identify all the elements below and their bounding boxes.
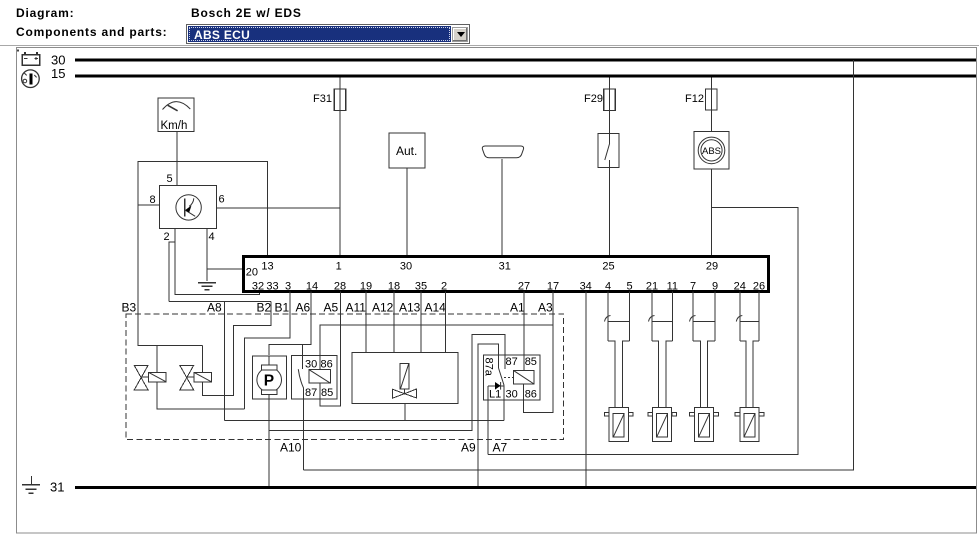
main relay box with diode (483, 355, 540, 400)
svg-text:34: 34 (580, 281, 592, 293)
svg-text:30: 30 (305, 358, 317, 370)
wire pair ECU pins 7 9 to sensor G45 (692, 292, 694, 342)
ground symbol at sensor (198, 283, 216, 290)
svg-text:30: 30 (400, 261, 412, 273)
svg-text:1: 1 (336, 261, 342, 273)
ignition switch symbol (22, 70, 40, 88)
wire sensor pin 4 to ground (206, 229, 208, 282)
wheel speed sensor G46 (648, 407, 677, 441)
svg-text:29: 29 (706, 261, 718, 273)
svg-text:17: 17 (547, 281, 559, 293)
svg-text:18: 18 (388, 281, 400, 293)
svg-text:3: 3 (285, 281, 291, 293)
wire valve coil 2 feed (202, 345, 204, 372)
svg-text:30: 30 (506, 388, 518, 400)
svg-text:5: 5 (626, 281, 632, 293)
wire net B3 to valve coils (138, 205, 202, 345)
wire sensor pin 2 with jog (175, 229, 259, 295)
pressure switch relay box (291, 356, 337, 399)
wire relay 30 to common rail (503, 400, 505, 421)
svg-text:24: 24 (734, 281, 746, 293)
wire pair ECU pins 24 26 to sensor G44 (739, 292, 741, 342)
svg-text:31: 31 (499, 261, 511, 273)
svg-text:8: 8 (150, 194, 156, 206)
svg-text:5: 5 (167, 173, 173, 185)
solenoid valve 2 (180, 366, 212, 390)
svg-text:14: 14 (306, 281, 318, 293)
top separator line (0, 45, 979, 47)
svg-text:ABS: ABS (702, 146, 721, 157)
svg-text:A6: A6 (296, 301, 311, 315)
svg-text:26: 26 (753, 281, 765, 293)
battery symbol (22, 52, 39, 65)
svg-text:86: 86 (321, 358, 333, 370)
svg-text:87: 87 (305, 387, 317, 399)
svg-text:21: 21 (646, 281, 658, 293)
EDS valve block N101 (352, 352, 458, 403)
brake light switch box (598, 134, 619, 168)
speed sensor box (160, 185, 217, 228)
header label Components and parts: (16, 25, 167, 39)
svg-text:13: 13 (261, 261, 273, 273)
wire pair ECU pins 21 11 to sensor G46 (651, 292, 653, 342)
svg-text:A5: A5 (324, 301, 339, 315)
wire ECU pin 34 to bus 31 (585, 292, 587, 486)
wire frame pin13 net upper horizontal (138, 162, 267, 257)
wire ABS lamp to ECU pin 29 (710, 169, 712, 256)
ECU bottom pin labels (252, 281, 765, 293)
wire A3 branch to pump relay coil (320, 325, 553, 370)
svg-text:A1: A1 (510, 301, 525, 315)
svg-text:F29: F29 (584, 93, 603, 105)
svg-text:15: 15 (51, 66, 65, 81)
svg-text:P: P (264, 373, 274, 390)
dropdown select ABS ECU (186, 24, 470, 44)
svg-text:Km/h: Km/h (161, 120, 188, 132)
svg-text:4: 4 (209, 231, 215, 243)
svg-text:A8: A8 (207, 301, 222, 315)
bus 31 (75, 486, 976, 489)
svg-text:6: 6 (219, 194, 225, 206)
wire pressure switch top stub (302, 344, 304, 369)
ABS warning lamp (694, 132, 729, 170)
wire EDS block to common rail (404, 403, 406, 420)
wire connector to ECU pin 31 (501, 159, 503, 257)
svg-text:A13: A13 (399, 301, 421, 315)
relay Aut. box (389, 133, 425, 168)
wire ECU pin 17 A3 to relay coils (524, 292, 553, 413)
fuse F29 (584, 78, 615, 134)
svg-text:A14: A14 (425, 301, 447, 315)
fuse F31 (313, 78, 346, 257)
header value Bosch 2E w/ EDS (191, 6, 302, 20)
speedometer Km/h gauge (158, 98, 194, 132)
fuse F12 (685, 78, 717, 132)
svg-text:87a: 87a (483, 358, 495, 377)
svg-text:F31: F31 (313, 93, 332, 105)
svg-text:B1: B1 (275, 301, 290, 315)
wire valve 1 coil return rail (157, 382, 245, 409)
ECU top pin labels (261, 261, 718, 273)
wheel speed sensor G47 (604, 407, 633, 441)
wire pump feed inside box (268, 356, 270, 365)
hydraulic pump motor V64 (252, 356, 286, 399)
svg-text:A9: A9 (461, 441, 476, 455)
wire ABS lamp branch to relay L1 (488, 208, 798, 455)
wire ECU pin 27 A1 to relay coil 85 (523, 292, 525, 371)
wire pump feed rail B to relay 87 (269, 334, 506, 430)
wire pair ECU pins 4 5 to sensor G47 (607, 292, 609, 342)
svg-text:19: 19 (360, 281, 372, 293)
wire common rail A (224, 419, 504, 421)
svg-text:2: 2 (441, 281, 447, 293)
svg-text:7: 7 (690, 281, 696, 293)
svg-text:32: 32 (252, 281, 264, 293)
wire pump to bus 31 (268, 395, 270, 486)
wire Km/h to speed sensor pin 5 (176, 132, 178, 186)
svg-text:A10: A10 (280, 441, 302, 455)
svg-text:35: 35 (415, 281, 427, 293)
svg-text:A12: A12 (372, 301, 394, 315)
wire sensor pin 6 to fuse F31 net (216, 207, 340, 209)
header label Diagram: (16, 6, 74, 20)
svg-text:4: 4 (605, 281, 611, 293)
svg-text:27: 27 (518, 281, 530, 293)
svg-text:85: 85 (321, 387, 333, 399)
svg-text:B2: B2 (257, 301, 272, 315)
diagnostic connector symbol (482, 146, 523, 158)
svg-text:2: 2 (164, 231, 170, 243)
svg-text:86: 86 (525, 388, 537, 400)
svg-text:B3: B3 (122, 301, 137, 315)
ground symbol bottom left (22, 476, 40, 493)
wire ECU pin 20 to ground net (207, 268, 244, 270)
wires ECU pins 19 18 35 2 to EDS valve (366, 292, 445, 353)
wheel speed sensor G45 (690, 407, 719, 441)
svg-text:L1: L1 (489, 388, 501, 400)
wire sensor pin 8 to B3 net (138, 204, 159, 206)
solenoid valve 1 (134, 366, 166, 390)
bus 30 (75, 58, 976, 61)
svg-text:25: 25 (602, 261, 614, 273)
wire switch to ECU pin 25 (609, 168, 611, 257)
wire pressure switch 87 to A10 (303, 399, 305, 470)
wheel speed sensor G44 (735, 407, 764, 441)
svg-text:A3: A3 (538, 301, 553, 315)
wire A8 drop to common rail (223, 302, 225, 421)
svg-text:F12: F12 (685, 93, 704, 105)
wire relay L1 to A7 (487, 386, 489, 455)
svg-text:33: 33 (266, 281, 278, 293)
hydraulic unit dashed box (126, 314, 564, 440)
wire Aut. to ECU pin 30 (406, 168, 408, 257)
svg-text:31: 31 (50, 480, 64, 495)
svg-text:A11: A11 (346, 301, 367, 315)
svg-text:9: 9 (712, 281, 718, 293)
svg-text:87: 87 (506, 356, 518, 368)
wire pump relay coil 85 to A5 pin 28 (320, 292, 341, 406)
svg-text:Aut.: Aut. (396, 144, 417, 158)
svg-text:85: 85 (525, 356, 537, 368)
wire ECU pin 14 A6 feed (269, 292, 311, 356)
svg-text:28: 28 (334, 281, 346, 293)
bus 15 (75, 75, 976, 78)
ECU box J104 (244, 257, 769, 292)
wire common net horizontal to A8 and B2 (169, 301, 271, 303)
wire relay switch to A9 bus 31 (478, 344, 499, 486)
wire bus30 drop to pressure switch (304, 60, 854, 470)
wire net B2 to valve 2 coil (203, 302, 272, 396)
dropdown arrow button (452, 27, 468, 42)
wire valve coil 1 top stub (156, 345, 158, 372)
svg-text:20: 20 (246, 267, 258, 279)
svg-text:A7: A7 (493, 441, 508, 455)
svg-text:11: 11 (667, 281, 678, 293)
wire ECU pin 3 B1 to valve 1 return (245, 292, 290, 410)
corner mark (17, 50, 19, 52)
